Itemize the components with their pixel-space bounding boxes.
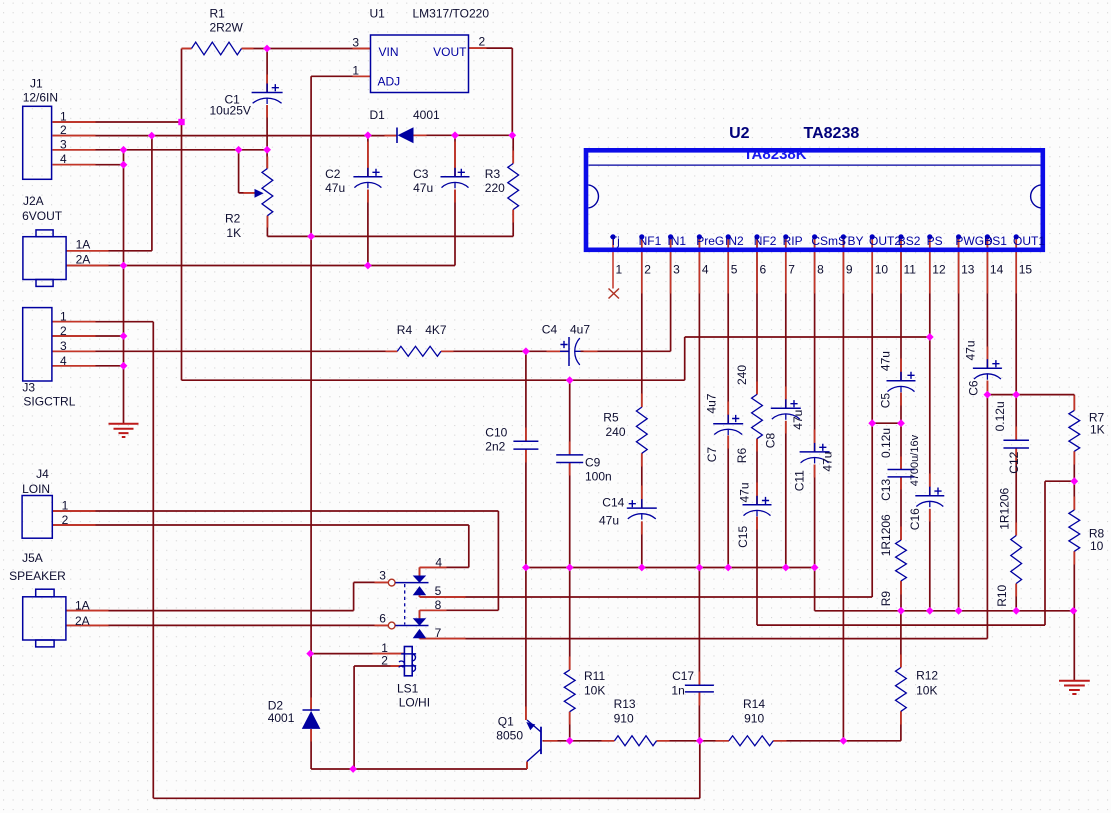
wire [419, 637, 421, 639]
wire [842, 237, 844, 741]
svg-text:47u: 47u [325, 181, 345, 195]
junction [840, 737, 848, 745]
svg-text:47u: 47u [821, 452, 835, 472]
svg-text:Q1: Q1 [498, 714, 514, 728]
wire [311, 653, 404, 655]
relay LS1 coil [399, 647, 416, 676]
label R2 [225, 211, 241, 225]
junction [178, 119, 184, 125]
svg-text:J2A: J2A [23, 194, 44, 208]
svg-text:1A: 1A [75, 599, 90, 613]
svg-text:1K: 1K [1090, 423, 1105, 437]
regulator U1 box [371, 35, 469, 93]
resistor R2 (pot) [255, 169, 273, 216]
resistor R7 [1069, 410, 1080, 451]
value 0.12u (C12) [993, 401, 1007, 431]
wire [1015, 584, 1017, 611]
connector J4 [22, 496, 52, 539]
svg-text:4: 4 [702, 263, 709, 277]
svg-text:R12: R12 [916, 669, 938, 683]
capacitor C17 [685, 685, 714, 692]
diode D1 [397, 127, 414, 143]
wire [53, 335, 124, 337]
svg-text:4: 4 [60, 354, 67, 368]
wire [266, 105, 268, 169]
wire [1044, 481, 1046, 625]
svg-text:910: 910 [744, 712, 764, 726]
wire [53, 321, 154, 323]
wire [353, 582, 355, 610]
svg-text:1: 1 [60, 310, 67, 324]
label Q1 [498, 714, 514, 728]
label R14 [743, 697, 765, 711]
svg-text:7: 7 [788, 263, 795, 277]
connector J5A [23, 589, 66, 647]
label C14 [602, 496, 624, 510]
label TA8238K [744, 146, 807, 163]
label J2A [23, 194, 44, 208]
junction [868, 419, 876, 427]
wire [569, 712, 571, 741]
U2 pin connection dots [610, 234, 1018, 239]
wire [1015, 237, 1017, 441]
wire [420, 638, 988, 640]
wire [53, 164, 124, 166]
svg-text:TA8238: TA8238 [804, 125, 860, 142]
wire [900, 237, 902, 381]
value 220 [485, 181, 505, 195]
svg-text:4001: 4001 [268, 711, 295, 725]
label R8 [1089, 527, 1105, 541]
capacitor C14 [627, 499, 657, 519]
svg-text:11: 11 [904, 263, 917, 277]
junction [984, 391, 992, 399]
svg-text:R1: R1 [210, 7, 226, 21]
label C9 [585, 456, 601, 470]
junction [566, 737, 574, 745]
value 47u (C3) [413, 181, 433, 195]
wire [986, 381, 988, 639]
junction [451, 131, 459, 139]
wire [497, 511, 499, 610]
capacitor C4 [560, 337, 581, 366]
svg-text:0.12u: 0.12u [879, 428, 893, 458]
junction [364, 262, 372, 270]
svg-text:LM317/TO220: LM317/TO220 [413, 7, 490, 21]
wire [1073, 395, 1075, 411]
svg-text:47u: 47u [738, 482, 752, 502]
svg-text:10u25V: 10u25V [210, 104, 251, 118]
svg-text:C8: C8 [764, 433, 778, 449]
svg-text:C9: C9 [585, 456, 601, 470]
junction [522, 347, 530, 355]
junction [696, 737, 704, 745]
svg-text:U1: U1 [370, 7, 386, 21]
svg-text:J5A: J5A [22, 551, 43, 565]
wire [657, 740, 729, 742]
svg-text:4: 4 [60, 152, 67, 166]
svg-text:R5: R5 [603, 411, 619, 425]
svg-text:3: 3 [60, 137, 67, 151]
wire [670, 237, 672, 352]
svg-text:2: 2 [62, 513, 69, 527]
capacitor C10 [513, 441, 538, 449]
svg-text:14: 14 [990, 263, 1004, 277]
capacitor C2 [353, 168, 382, 189]
resistor R3 [508, 164, 519, 210]
wire [900, 393, 902, 470]
resistor R11 [564, 670, 575, 712]
pin numbers LS1 [379, 555, 442, 667]
value 8050 [496, 729, 523, 743]
wire [468, 525, 470, 567]
label LS1 [397, 682, 419, 696]
wire [53, 350, 398, 352]
wire [419, 567, 421, 575]
value 47u (C15) [738, 482, 752, 502]
junction [148, 132, 156, 140]
wire [53, 365, 124, 367]
svg-text:C4: C4 [542, 323, 558, 337]
svg-text:8: 8 [435, 598, 442, 612]
wire [814, 237, 816, 452]
U2 pin numbers 1-15 [616, 263, 1033, 277]
value 100n [585, 470, 612, 484]
svg-text:1: 1 [60, 110, 67, 124]
pin name VOUT [433, 45, 467, 59]
svg-text:C11: C11 [793, 470, 807, 491]
svg-text:47u: 47u [878, 351, 892, 371]
wire [698, 237, 700, 686]
svg-text:C13: C13 [879, 479, 893, 501]
junction [566, 564, 574, 572]
svg-text:1n: 1n [671, 684, 684, 698]
wire [151, 136, 153, 251]
junction [263, 146, 271, 154]
value 2R2W [210, 21, 244, 35]
wire [525, 449, 527, 567]
svg-text:3: 3 [379, 569, 386, 583]
label LM317/TO220 [413, 7, 490, 21]
label U2 [729, 125, 750, 142]
pin name VIN [379, 45, 399, 59]
svg-text:1A: 1A [76, 238, 91, 252]
wire [525, 568, 527, 721]
label R10 [995, 584, 1009, 606]
label 12/6IN [23, 91, 58, 105]
svg-text:12/6IN: 12/6IN [23, 91, 58, 105]
svg-text:TBY: TBY [840, 234, 863, 248]
ground (J3 area) [109, 424, 139, 437]
relay LS1 link (dashed) [404, 584, 406, 625]
junction [120, 332, 128, 340]
wire [785, 421, 787, 568]
wire [727, 436, 729, 568]
svg-text:C16: C16 [908, 508, 922, 530]
wire [353, 666, 355, 769]
svg-text:C3: C3 [413, 167, 429, 181]
svg-text:3: 3 [673, 263, 680, 277]
wire [958, 237, 960, 611]
wire [53, 524, 469, 526]
junction [306, 650, 314, 658]
junction [897, 607, 905, 615]
svg-text:C12: C12 [1007, 451, 1021, 473]
value 1R1206 (R9) [879, 514, 893, 556]
label C16 [908, 508, 922, 530]
svg-text:1K: 1K [226, 226, 241, 240]
label C3 [413, 167, 429, 181]
svg-text:10: 10 [875, 263, 889, 277]
svg-text:1R1206: 1R1206 [879, 514, 893, 556]
label J1 [30, 77, 43, 91]
capacitor C16 [915, 487, 944, 508]
svg-text:2n2: 2n2 [485, 440, 505, 454]
junction [235, 146, 243, 154]
svg-text:12: 12 [932, 263, 946, 277]
svg-text:U2: U2 [729, 125, 750, 142]
svg-text:47u: 47u [963, 340, 977, 360]
label R7 [1089, 410, 1105, 424]
value 47u (C8) [791, 410, 805, 430]
label TA8238 [804, 125, 860, 142]
wire [929, 237, 931, 496]
wire [526, 567, 815, 569]
svg-text:C5: C5 [878, 393, 892, 409]
wire [900, 711, 902, 741]
svg-text:3: 3 [352, 36, 359, 50]
svg-text:47u: 47u [413, 181, 433, 195]
svg-text:1R1206: 1R1206 [998, 487, 1012, 529]
value 47u (C14) [599, 514, 619, 528]
svg-text:BS2: BS2 [898, 234, 921, 248]
wire [684, 337, 686, 380]
wire [814, 465, 816, 611]
svg-text:Tj: Tj [610, 234, 620, 248]
wire [67, 265, 456, 267]
svg-text:PS: PS [927, 234, 943, 248]
value 10 (R8) [1090, 539, 1104, 553]
label SPEAKER [9, 569, 66, 583]
label C10 [485, 426, 507, 440]
wire [727, 237, 729, 424]
capacitor C7 [713, 415, 743, 436]
junction [508, 131, 516, 139]
svg-text:R3: R3 [485, 167, 501, 181]
value 1K (R7) [1090, 423, 1105, 437]
resistor R5 [636, 407, 647, 453]
wire [152, 322, 154, 799]
junction [120, 146, 128, 154]
IC U2 pin leads [613, 238, 1016, 294]
wire [53, 121, 182, 123]
label C8 [764, 433, 778, 449]
connector J2A [23, 230, 66, 287]
junction [120, 262, 128, 270]
wire [182, 379, 685, 381]
wire [238, 150, 240, 193]
U2 pin names [610, 234, 1046, 248]
wire [414, 134, 513, 136]
junction [782, 564, 790, 572]
label R6 [735, 448, 749, 464]
svg-text:RIP: RIP [783, 234, 803, 248]
svg-text:IN2: IN2 [725, 234, 744, 248]
junction [349, 765, 357, 773]
svg-text:6: 6 [379, 612, 386, 626]
wire [310, 654, 312, 711]
svg-text:2A: 2A [76, 253, 91, 267]
label C17 [672, 669, 694, 683]
wire [512, 135, 514, 163]
junction [897, 419, 905, 427]
wire [929, 509, 931, 611]
wire [785, 237, 787, 409]
wire [181, 49, 183, 381]
wire [266, 216, 268, 237]
wire [311, 75, 370, 77]
svg-text:VIN: VIN [379, 45, 399, 59]
svg-text:2R2W: 2R2W [210, 21, 244, 35]
svg-text:10K: 10K [916, 684, 937, 698]
junction [724, 564, 732, 572]
value 4K7 [425, 323, 447, 337]
junction [1070, 607, 1078, 615]
label C5 [878, 393, 892, 409]
capacitor C12 [1003, 440, 1028, 448]
junction [522, 564, 530, 572]
label C13 [879, 479, 893, 501]
wire [123, 150, 125, 424]
label J3 [22, 381, 35, 395]
wire [182, 48, 192, 50]
svg-text:IN1: IN1 [667, 234, 686, 248]
label D2 [268, 698, 284, 712]
pin numbers J3 [60, 310, 67, 368]
junction [811, 564, 819, 572]
wire [900, 611, 902, 668]
label C6 [966, 380, 980, 396]
wire [526, 762, 528, 770]
capacitor C3 [441, 168, 470, 189]
ground (output) [1059, 681, 1090, 694]
svg-text:SIGCTRL: SIGCTRL [23, 395, 75, 409]
wire [1015, 448, 1017, 536]
value 0.12u (C13) [879, 428, 893, 458]
value 47u (C11) [821, 452, 835, 472]
capacitor C8 [771, 399, 801, 420]
wire [310, 76, 312, 653]
value 10K (R12) [916, 684, 937, 698]
resistor R10 [1011, 536, 1022, 584]
svg-text:2A: 2A [75, 614, 90, 628]
svg-text:47u: 47u [599, 514, 619, 528]
capacitor C1 [252, 84, 283, 105]
svg-text:R10: R10 [995, 584, 1009, 606]
label C12 [1007, 451, 1021, 473]
wire [900, 477, 902, 540]
value 4700u/16v [909, 434, 921, 486]
relay LS1 contact pin3 circle [388, 579, 395, 586]
value 10K (R11) [584, 684, 605, 698]
label C15 [736, 526, 750, 548]
label SIGCTRL [23, 395, 75, 409]
svg-text:4K7: 4K7 [425, 323, 447, 337]
svg-text:NF2: NF2 [754, 234, 777, 248]
wire [311, 768, 527, 770]
svg-text:10K: 10K [584, 684, 605, 698]
value 1n [671, 684, 684, 698]
wire [756, 517, 758, 626]
svg-text:D1: D1 [370, 108, 386, 122]
svg-text:R4: R4 [397, 323, 413, 337]
junction [364, 131, 372, 139]
label R12 [916, 669, 938, 683]
svg-text:PreG: PreG [696, 234, 724, 248]
capacitor C9 [556, 455, 583, 463]
wire [419, 595, 421, 597]
value 10u25V [210, 104, 251, 118]
wire [266, 49, 268, 93]
wire [1045, 480, 1074, 482]
svg-text:15: 15 [1019, 263, 1033, 277]
svg-text:5: 5 [731, 263, 738, 277]
junction [926, 607, 934, 615]
svg-text:8050: 8050 [496, 729, 523, 743]
svg-text:OUT2: OUT2 [869, 234, 901, 248]
wire [354, 581, 389, 583]
pin number 3 (U1) [352, 36, 359, 50]
svg-text:C10: C10 [485, 426, 507, 440]
wire [641, 453, 643, 508]
wire [641, 521, 643, 567]
wire [1073, 451, 1075, 510]
svg-text:240: 240 [735, 365, 749, 385]
svg-text:J3: J3 [22, 381, 35, 395]
wire [986, 237, 988, 369]
value 4001 (D2) [268, 711, 295, 725]
capacitor C11 [800, 443, 830, 464]
label J5A [22, 551, 43, 565]
label C2 [325, 167, 341, 181]
no-connect X on pin 1 [609, 289, 620, 299]
wire [239, 192, 255, 194]
wire [815, 610, 1074, 612]
svg-text:2: 2 [381, 653, 388, 667]
connector J1 [23, 106, 52, 179]
pin numbers J4 [62, 499, 69, 528]
svg-text:2: 2 [644, 263, 651, 277]
wire [756, 237, 758, 395]
svg-text:C14: C14 [602, 496, 624, 510]
svg-text:47u: 47u [791, 410, 805, 430]
svg-text:4700u/16v: 4700u/16v [909, 434, 921, 486]
wire [511, 48, 513, 135]
svg-text:J1: J1 [30, 77, 43, 91]
label R13 [614, 697, 636, 711]
svg-text:BS1: BS1 [984, 234, 1007, 248]
resistor R9 [896, 540, 907, 581]
junction [566, 376, 574, 384]
junction [1012, 607, 1020, 615]
wire [454, 190, 456, 266]
wire [698, 692, 700, 741]
wire [569, 380, 571, 455]
value 4u7 (C4) [570, 323, 590, 337]
wire [569, 568, 571, 670]
wire [699, 741, 701, 799]
resistor R14 [729, 736, 773, 746]
